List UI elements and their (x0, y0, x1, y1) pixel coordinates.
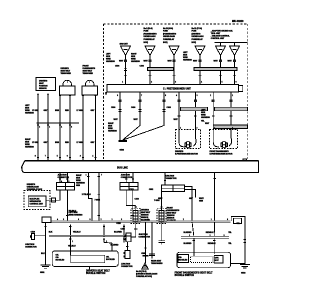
svg-text:HARNESS: HARNESS (131, 60, 141, 63)
sensor S1 box (36, 78, 56, 91)
solenoid L1 coil (133, 210, 138, 221)
svg-text:2: 2 (151, 82, 152, 84)
svg-text:WIRE HARNESS: WIRE HARNESS (69, 214, 84, 217)
triangle ticks (124, 49, 237, 51)
svg-text:C505: C505 (141, 253, 145, 255)
fuse box triangle (142, 263, 149, 269)
connector row R1 (51, 220, 230, 222)
svg-text:BUCKLE SWITCH: BUCKLE SWITCH (86, 273, 106, 275)
svg-text:FUSE: FUSE (144, 31, 150, 33)
svg-text:No.2 (10 A): No.2 (10 A) (144, 27, 153, 30)
inline connectors (119, 99, 166, 102)
motor M1 box (176, 130, 201, 149)
connector ticks (119, 110, 166, 112)
svg-text:(PASSENGER'S: (PASSENGER'S (144, 32, 158, 35)
svg-text:E-PRETENSIONER MOTOR: E-PRETENSIONER MOTOR (210, 154, 233, 156)
tensioner T2 (85, 80, 94, 89)
feed wire to L2 (160, 191, 162, 205)
inline connectors on fuse wires (124, 60, 236, 63)
svg-text:HARNESS: HARNESS (201, 116, 211, 119)
switch internals (56, 254, 65, 261)
svg-text:LT GRN: LT GRN (32, 142, 39, 144)
wire colors (114, 119, 179, 121)
dashed SRS harness box (104, 24, 248, 160)
connector labels (115, 65, 144, 68)
svg-text:CONNECTOR: CONNECTOR (165, 178, 177, 180)
svg-text:4: 4 (61, 127, 62, 129)
fuse label F2 (144, 27, 158, 44)
wire W3 (59, 97, 61, 161)
stub pin (105, 92, 107, 95)
harness label (108, 123, 118, 133)
pin numbers below unit (117, 95, 233, 97)
svg-text:1: 1 (86, 175, 87, 177)
harness label (69, 212, 84, 217)
ground G502 (240, 265, 250, 269)
svg-text:BOX): BOX) (192, 42, 197, 44)
svg-text:8: 8 (35, 156, 36, 158)
svg-text:BLK/RED: BLK/RED (184, 232, 193, 234)
svg-text:C416: C416 (121, 227, 125, 230)
svg-text:FUSE/RELAY BOX): FUSE/RELAY BOX) (136, 275, 152, 278)
svg-text:3: 3 (63, 219, 64, 221)
wire unit pin 9 (119, 92, 121, 140)
svg-text:4: 4 (57, 219, 58, 221)
wire from A3 (173, 56, 175, 85)
J2 out wires (185, 186, 196, 220)
pin numbers above row (57, 219, 228, 221)
svg-text:1: 1 (122, 82, 123, 84)
svg-text:C : PRETENSIONER UNIT: C : PRETENSIONER UNIT (163, 89, 191, 91)
svg-text:8: 8 (165, 95, 166, 97)
jack connector low (124, 251, 130, 259)
svg-text:3: 3 (80, 156, 81, 158)
svg-text:4: 4 (201, 82, 202, 84)
svg-text:RED/BLK: RED/BLK (208, 243, 217, 245)
ground wire (142, 222, 148, 263)
multiplex unit (28, 196, 46, 207)
fuse arrow A3 (169, 46, 179, 56)
wire color row 2 (32, 142, 95, 144)
svg-text:BLU/RED: BLU/RED (184, 243, 193, 245)
driver buckle switch box (52, 251, 118, 267)
svg-text:CONTROL UNIT: CONTROL UNIT (30, 204, 44, 206)
pretensioner unit U1 (107, 85, 239, 93)
svg-text:C553: C553 (129, 189, 133, 191)
fuse box label (136, 270, 158, 278)
svg-text:6: 6 (78, 219, 79, 221)
svg-text:1: 1 (180, 127, 181, 129)
svg-text:C416: C416 (116, 222, 120, 225)
motor M1 label (175, 151, 198, 156)
harness label (76, 175, 86, 187)
connector C204 line (37, 122, 80, 124)
svg-text:YEL/BLU: YEL/BLU (73, 232, 81, 234)
junction connector J1 (56, 183, 74, 190)
wire colors (201, 121, 210, 126)
wire unit pin 2 (212, 92, 214, 130)
svg-text:2: 2 (39, 127, 40, 129)
svg-text:E-PRETENSIONER MOTOR: E-PRETENSIONER MOTOR (175, 154, 198, 156)
label stub (89, 266, 91, 269)
wire from A2 (149, 56, 151, 85)
junction connector J2 (161, 185, 184, 191)
wire (87, 173, 92, 221)
motor M2 wiring (213, 130, 231, 147)
motor M1 wiring (179, 130, 196, 147)
svg-text:CONNECTOR: CONNECTOR (25, 247, 37, 249)
svg-text:3: 3 (175, 82, 176, 84)
L1 wires (131, 206, 137, 237)
row end box left (42, 217, 51, 222)
svg-text:RED/BLK: RED/BLK (206, 232, 215, 234)
harness label (183, 52, 193, 62)
harness label (131, 54, 141, 64)
pins below band (44, 223, 125, 264)
J1 output wires (46, 190, 69, 221)
svg-text:C510: C510 (31, 231, 35, 233)
multiplex unit dashed box (24, 191, 50, 210)
wire unit pin 4 (178, 92, 180, 130)
ground G501 (41, 264, 51, 268)
splice bar SP2 (194, 68, 237, 71)
svg-text:8: 8 (227, 219, 228, 221)
state box 2 (214, 255, 223, 263)
svg-text:7: 7 (45, 156, 46, 158)
svg-text:CONTROL UNIT: CONTROL UNIT (211, 38, 225, 40)
svg-text:G503: G503 (120, 150, 124, 152)
svg-text:4: 4 (176, 95, 177, 97)
svg-text:2: 2 (101, 219, 102, 221)
wire colors row A (184, 232, 233, 234)
wire to switch (104, 243, 112, 251)
connector labels (129, 189, 153, 191)
J2 feed (164, 173, 166, 186)
wire unit pin 7 (123, 92, 140, 140)
svg-text:5: 5 (103, 98, 104, 100)
wire colors row B (184, 243, 233, 245)
wire (126, 242, 128, 251)
harness text blob (201, 110, 211, 120)
junction connector JM (120, 183, 138, 190)
connector row R2 (181, 236, 229, 238)
svg-text:FUSE/RELAY: FUSE/RELAY (163, 38, 175, 41)
svg-text:MIU-31020: MIU-31020 (232, 21, 244, 23)
svg-text:BOX): BOX) (163, 42, 168, 44)
under-dash fuse box label (27, 184, 43, 191)
inline connectors (178, 99, 233, 102)
svg-text:HARNESS: HARNESS (108, 130, 118, 133)
svg-text:CONNECTOR: CONNECTOR (139, 236, 151, 238)
svg-text:SRS UNIT: SRS UNIT (120, 43, 129, 45)
svg-text:LT GRN: LT GRN (77, 142, 84, 144)
svg-text:9: 9 (117, 95, 118, 97)
wire W4 (69, 97, 71, 161)
svg-text:LT GRN: LT GRN (32, 110, 39, 112)
left harness label (25, 105, 35, 115)
J1 feed wires (59, 173, 69, 183)
fuse arrow A4 (195, 46, 205, 56)
wire unit pin 1 (230, 92, 232, 130)
solenoid L1 dashed box (131, 208, 140, 223)
splice bar SP4 (215, 107, 248, 111)
svg-text:7 GRN: 7 GRN (154, 200, 160, 202)
motor M1 (185, 142, 191, 148)
fuse arrow A6 (230, 46, 240, 56)
svg-text:TENSIONER: TENSIONER (61, 73, 72, 75)
svg-text:C416: C416 (135, 197, 139, 200)
svg-text:2: 2 (210, 95, 211, 97)
svg-text:6: 6 (236, 82, 237, 84)
svg-text:G501: G501 (40, 272, 44, 274)
JM feed wires (125, 173, 134, 183)
wire W5 (82, 97, 84, 161)
svg-text:C406: C406 (140, 65, 144, 68)
wire colors (68, 245, 119, 248)
svg-text:TENSIONER: TENSIONER (83, 73, 94, 75)
wire W2 (47, 96, 49, 161)
right harness label (25, 139, 35, 149)
switch label (175, 271, 214, 277)
svg-text:(PASSENGER'S: (PASSENGER'S (163, 32, 177, 35)
wire from A5 (220, 56, 222, 85)
wire from A1 (125, 56, 127, 85)
svg-text:SENSOR: SENSOR (39, 88, 47, 90)
svg-text:1: 1 (112, 219, 113, 221)
svg-text:4: 4 (92, 156, 93, 158)
pin numbers above unit (122, 82, 237, 84)
svg-text:FRONT PASSENGER'S SEAT BELT: FRONT PASSENGER'S SEAT BELT (175, 271, 214, 274)
switch label (86, 269, 110, 275)
connector ticks (178, 115, 233, 119)
svg-text:FUSE: FUSE (163, 31, 169, 33)
svg-text:5: 5 (222, 82, 223, 84)
wire labels (82, 175, 102, 202)
state box 1 (178, 255, 189, 263)
splice S1 (119, 140, 128, 141)
svg-text:3: 3 (197, 95, 198, 97)
svg-text:7: 7 (101, 175, 102, 177)
svg-text:HARNESS: HARNESS (25, 146, 35, 149)
svg-text:CONNECTOR: CONNECTOR (121, 266, 133, 268)
wire unit pin 8 (124, 92, 165, 140)
fuse label F4 (192, 27, 205, 44)
svg-text:7 GRN: 7 GRN (95, 200, 101, 202)
wire unit pin 3 (194, 92, 196, 130)
svg-text:No.21 (7.5 A): No.21 (7.5 A) (192, 27, 203, 30)
svg-text:DRIVER'S SEAT BELT: DRIVER'S SEAT BELT (86, 269, 110, 272)
svg-text:4: 4 (61, 181, 62, 183)
splice bar SP1 (147, 68, 173, 71)
wire from A4 (199, 56, 201, 85)
svg-text:1: 1 (211, 219, 212, 221)
svg-text:G502: G502 (241, 273, 245, 275)
solenoid L2 dashed box (157, 208, 166, 223)
splice bar SP3 (181, 107, 208, 111)
box exit wire (231, 263, 245, 265)
svg-text:YEL/BLU: YEL/BLU (68, 246, 76, 248)
svg-text:TENSIONERS: TENSIONERS (151, 263, 163, 265)
svg-text:2: 2 (210, 235, 211, 237)
junction connector J1 label (58, 175, 70, 180)
feed wire to L1 (126, 190, 136, 206)
svg-text:FUSE/RELAY: FUSE/RELAY (192, 38, 204, 41)
splice bar SP5 (213, 125, 248, 129)
junction connector label (25, 244, 37, 249)
motor M2 box (210, 130, 238, 149)
bus entry pins (37, 156, 97, 158)
wire color row 1 (32, 110, 95, 112)
svg-text:1: 1 (189, 235, 190, 237)
solenoid L2 label (167, 208, 180, 223)
connector labels (111, 106, 171, 109)
solenoid L1 label (141, 210, 151, 222)
junction connector J2 label (165, 176, 177, 181)
L2 wires (160, 206, 162, 241)
svg-text:FUSE/RELAY: FUSE/RELAY (144, 38, 156, 41)
svg-text:2 YEL/BLU: 2 YEL/BLU (82, 194, 92, 196)
fuse label F1 (120, 43, 129, 45)
wire colors (119, 61, 232, 63)
svg-text:1: 1 (72, 241, 73, 243)
svg-text:FUSE: FUSE (192, 31, 198, 33)
svg-text:BLU/RED: BLU/RED (114, 232, 123, 234)
stub from bar (213, 173, 215, 221)
capacitor tick (159, 241, 165, 245)
switch dotted bar (70, 256, 104, 263)
svg-text:BUS LINE: BUS LINE (117, 167, 128, 169)
svg-text:C552: C552 (149, 189, 153, 191)
svg-text:4: 4 (147, 219, 148, 221)
switch dotted bar (193, 252, 195, 256)
svg-text:BUCKLE SWITCH: BUCKLE SWITCH (175, 275, 195, 277)
svg-text:No.23 (10 A): No.23 (10 A) (163, 27, 173, 30)
svg-text:7: 7 (141, 95, 142, 97)
wire from A6 (234, 56, 236, 85)
svg-text:1: 1 (232, 95, 233, 97)
svg-text:UNDER-DASH: UNDER-DASH (163, 35, 176, 38)
svg-text:5: 5 (90, 219, 91, 221)
bus notch (243, 159, 247, 161)
fuse label F3 (163, 27, 177, 44)
wire (98, 173, 100, 221)
svg-text:HARNESS: HARNESS (183, 59, 193, 62)
svg-text:BUCKLED: BUCKLED (106, 259, 115, 261)
svg-text:3: 3 (121, 219, 122, 221)
svg-text:1: 1 (49, 127, 50, 129)
fuse arrow A5 (216, 46, 226, 56)
svg-text:3: 3 (71, 127, 72, 129)
motor pin numbers (180, 127, 233, 129)
svg-text:HARNESS: HARNESS (106, 60, 116, 63)
junction connector JM label (121, 175, 133, 180)
wire labels (158, 198, 204, 203)
pins (189, 235, 225, 237)
svg-text:C406: C406 (167, 106, 171, 109)
right wires to rows (192, 222, 215, 254)
harness label (106, 54, 116, 64)
connector mark (52, 198, 56, 202)
wire W6 (95, 97, 97, 161)
svg-text:FUSE/RELAY BOX: FUSE/RELAY BOX (27, 188, 43, 191)
svg-text:BOX): BOX) (144, 42, 149, 44)
wire W1 (37, 96, 39, 161)
YEL jog wire to ground (231, 217, 246, 265)
stub wire (149, 222, 155, 258)
state text (106, 257, 115, 262)
legend (211, 30, 233, 41)
svg-text:5: 5 (57, 156, 58, 158)
fuse arrow A1 (121, 46, 131, 56)
tensioner T1 (63, 80, 72, 89)
svg-text:BUCKLED: BUCKLED (56, 259, 65, 261)
row ticks (69, 239, 125, 243)
fuse arrow A2 (145, 46, 155, 56)
motor M2 (221, 142, 227, 148)
svg-text:3: 3 (68, 181, 69, 183)
tensioner T2 label (83, 66, 96, 76)
svg-text:3: 3 (224, 235, 225, 237)
connector row line (49, 234, 131, 236)
component pins (37, 94, 97, 98)
legend wire (215, 43, 248, 47)
solenoid L2 coil (159, 210, 164, 221)
svg-text:6: 6 (67, 156, 68, 158)
svg-text:UNDER-DASH: UNDER-DASH (192, 35, 205, 38)
bus line box (25, 160, 258, 162)
rear seat label (151, 260, 163, 266)
JM output wires (132, 190, 134, 221)
svg-text:UNDER-DASH: UNDER-DASH (144, 35, 157, 38)
svg-text:C406: C406 (131, 106, 135, 109)
svg-text:LT GRN: LT GRN (77, 110, 84, 112)
row end box right (234, 218, 242, 223)
svg-text:BUCKLED: BUCKLED (179, 259, 188, 261)
connector ticks (124, 68, 236, 78)
svg-text:C506: C506 (111, 107, 115, 109)
wire colors (49, 232, 123, 234)
svg-text:2: 2 (183, 219, 184, 221)
svg-text:C506: C506 (115, 66, 119, 68)
motor M2 label (210, 150, 233, 156)
passenger buckle switch box (177, 252, 231, 268)
svg-text:(DRIVER'S: (DRIVER'S (192, 33, 202, 35)
tensioner T1 label (61, 68, 72, 75)
